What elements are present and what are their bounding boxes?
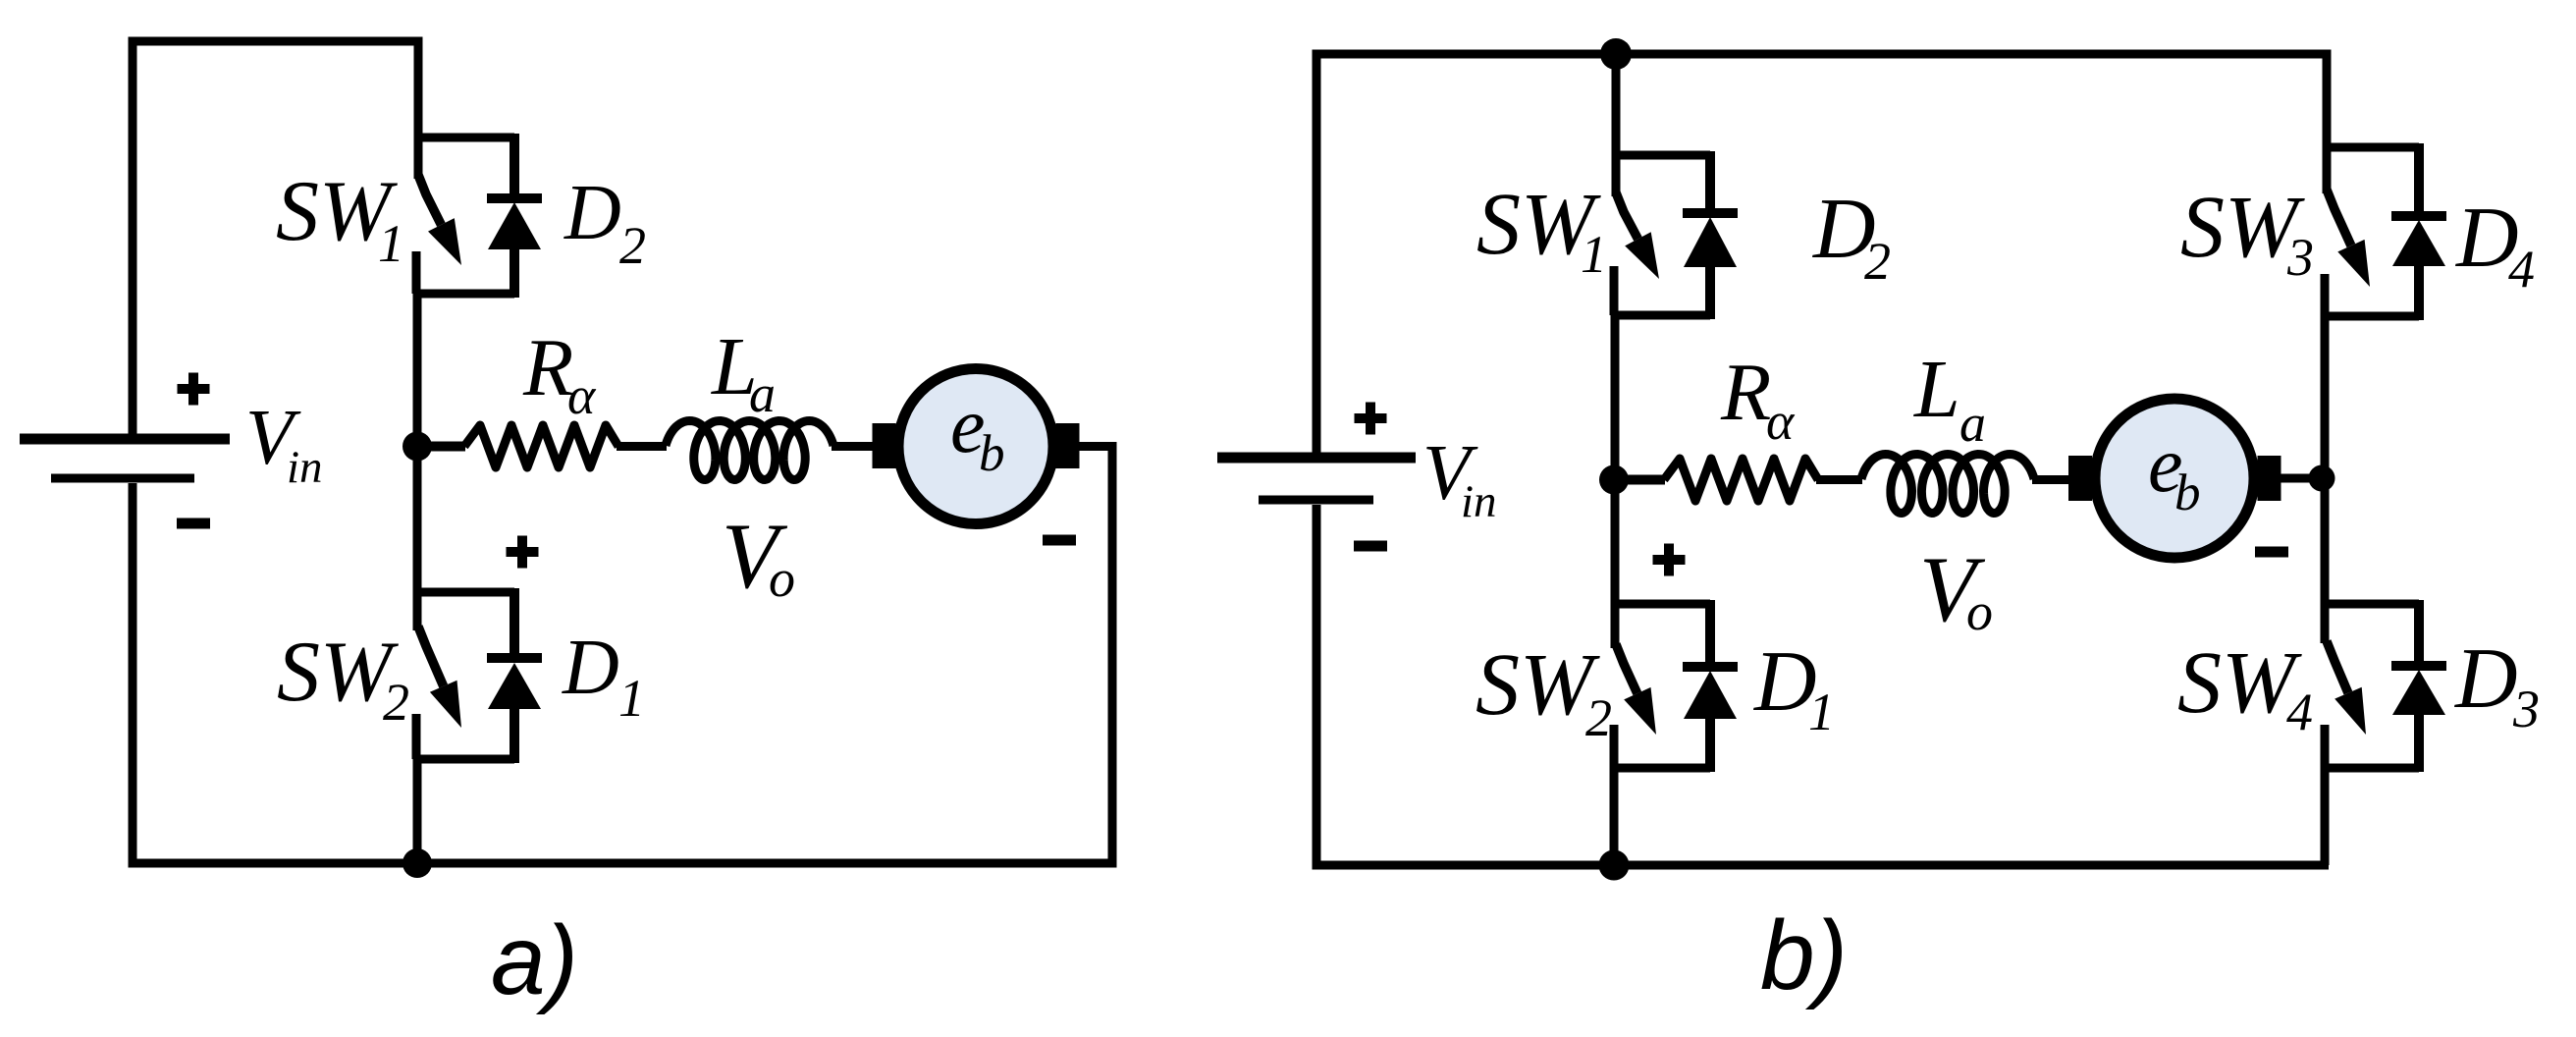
svg-text:D: D (562, 625, 619, 711)
switch SW1 arrowhead (428, 218, 461, 265)
inductor La (a) (666, 421, 833, 480)
wire: left phase leg between SW1 and SW2 (b) (1611, 311, 1620, 648)
svg-text:1: 1 (1808, 682, 1835, 741)
motor M body eb (a) (898, 369, 1053, 524)
wire: top bar of SW1/D2 (a) parallel pair (414, 134, 514, 142)
svg-text:1: 1 (1581, 225, 1607, 284)
switch SW3 arrowhead (2337, 240, 2370, 287)
wire: left rail + top rail + SW1 upper lead (a) (133, 41, 418, 434)
svg-text:L: L (1913, 344, 1960, 435)
wire: bottom bar of SW3/D4 (b) parallel pair (2324, 312, 2419, 321)
motor M terminal right (b) (2258, 456, 2281, 501)
wire: bottom bar of SW1/D2 (a) parallel pair (415, 290, 514, 299)
svg-text:b): b) (1760, 901, 1848, 1010)
wire: SW2 lower lead to bottom rail (b) (1610, 764, 1619, 865)
wire: SW2 lower lead to bottom rail (a) (413, 755, 422, 863)
svg-text:SW: SW (1476, 636, 1600, 734)
diode D1 cathode lead (510, 588, 519, 658)
wire: SW1 upper lead (b) (1612, 54, 1621, 196)
switch SW2 arrowhead (1624, 687, 1656, 735)
wire: bottom bar of SW4/D3 (b) parallel pair (2324, 764, 2419, 773)
battery Vin (b) negative plate (1259, 496, 1373, 505)
node: left output node junction dot (b) (1599, 465, 1629, 495)
svg-text:SW: SW (2180, 179, 2305, 276)
switch SW1 arrowhead (1625, 232, 1659, 279)
switch SW2 arrowhead (430, 681, 461, 728)
resistor Ra (b) (1664, 459, 1818, 501)
switch SW2 blade (418, 627, 444, 686)
node: bottom rail junction dot (a) (402, 848, 432, 878)
wire: bottom bar of SW1/D2 (b) parallel pair (1613, 311, 1710, 320)
diode D2 cathode lead (510, 134, 519, 198)
diode D4 cathode bar (2391, 211, 2446, 221)
switch SW1 blade (418, 175, 441, 225)
wire: motor to right phase leg (b) (2281, 474, 2326, 483)
wire: left rail lower + bottom rail + right rail to motor (a) (133, 447, 1112, 864)
switch SW1 blade (1616, 192, 1638, 239)
node: top rail junction dot (b) (1600, 38, 1632, 70)
wire: phase leg between SW1 and SW2 (a) (413, 290, 422, 630)
label + of Vo (b) (1653, 544, 1686, 576)
svg-text:a: a (1959, 394, 1986, 453)
svg-text:D: D (1753, 634, 1817, 730)
svg-text:SW: SW (277, 625, 399, 720)
svg-text:o: o (769, 549, 795, 608)
diode D1 cathode lead (1705, 600, 1715, 667)
label + of battery (b) (1355, 403, 1387, 435)
resistor Ra (a) (464, 425, 618, 467)
diode D1 anode lead (510, 707, 519, 763)
svg-text:a: a (749, 364, 776, 423)
wire: bottom bar of SW2/D1 (a) parallel pair (415, 755, 514, 764)
svg-text:a): a) (491, 905, 578, 1015)
switch SW3 lower contact (2321, 274, 2330, 316)
diode D4 triangle (2392, 220, 2445, 266)
node: output node junction dot (a) (402, 432, 432, 462)
switch SW2 lower contact (1610, 725, 1619, 768)
svg-text:2: 2 (619, 216, 646, 275)
svg-text:2: 2 (1864, 232, 1891, 291)
svg-text:α: α (1766, 392, 1796, 451)
label - of battery (a) (177, 518, 210, 529)
diode D3 triangle (2392, 670, 2445, 715)
motor M terminal right (a) (1056, 423, 1080, 468)
diode D1 cathode bar (1683, 662, 1738, 672)
svg-text:o: o (1966, 582, 1993, 641)
label + of Vo (a) (507, 536, 539, 569)
label - of battery (b) (1354, 541, 1387, 552)
svg-text:D: D (563, 170, 621, 256)
wire: resistor to inductor (b) (1816, 475, 1862, 484)
switch SW4 blade (2327, 641, 2348, 693)
diode D1 cathode bar (487, 653, 542, 663)
diode D3 cathode lead (2414, 600, 2424, 666)
svg-text:4: 4 (2286, 682, 2313, 741)
wire: left rail + top rail + SW3 upper lead (b) (1316, 54, 2327, 453)
svg-text:R: R (522, 322, 573, 413)
switch SW4 lower contact (2321, 725, 2330, 768)
battery Vin (a) positive plate (20, 434, 230, 445)
battery Vin (a) negative plate (51, 474, 194, 483)
wire: node to resistor (b) (1614, 475, 1665, 485)
switch SW1 lower contact (412, 251, 421, 294)
diode D1 triangle (1684, 671, 1737, 719)
diode D2 anode lead (1705, 265, 1715, 319)
diode D4 cathode lead (2414, 143, 2424, 216)
diode D3 anode lead (2414, 713, 2424, 772)
svg-text:4: 4 (2508, 240, 2535, 299)
battery Vin (b) positive plate (1217, 453, 1416, 464)
node: bottom rail junction dot (b) (1599, 850, 1630, 881)
diode D3 cathode bar (2391, 661, 2446, 671)
switch SW3 blade (2327, 190, 2351, 246)
wire: top bar of SW2/D1 (a) parallel pair (414, 588, 514, 597)
wire: node to resistor (a) (417, 442, 465, 452)
diode D2 cathode lead (1705, 151, 1715, 213)
switch SW2 lower contact (412, 714, 421, 759)
diode D1 triangle (488, 663, 541, 709)
label - at motor terminal (a) (1043, 535, 1076, 546)
wire: top bar of SW1/D2 (b) parallel pair (1612, 151, 1710, 160)
diode D1 anode lead (1705, 717, 1715, 772)
diode D2 anode lead (510, 247, 519, 298)
motor M body eb (b) (2095, 399, 2254, 558)
label - at motor terminal (b) (2255, 547, 2288, 558)
label + of battery (a) (178, 373, 210, 406)
diode D2 triangle (488, 202, 541, 249)
wire: right phase leg between SW3 and SW4 (b) (2321, 312, 2330, 643)
svg-text:1: 1 (618, 669, 645, 728)
switch SW1 lower contact (1610, 266, 1619, 315)
wire: top bar of SW3/D4 (b) parallel pair (2323, 143, 2419, 152)
svg-text:in: in (1461, 476, 1497, 527)
svg-text:R: R (1720, 347, 1771, 438)
svg-text:1: 1 (378, 214, 404, 273)
wire: resistor to inductor (a) (617, 442, 667, 451)
switch SW4 arrowhead (2334, 687, 2366, 735)
switch SW2 blade (1616, 644, 1637, 693)
svg-text:SW: SW (2177, 634, 2302, 732)
svg-text:b: b (2174, 464, 2201, 521)
wire: left rail lower + bottom rail (b) (1316, 505, 2329, 865)
wire: inductor to motor (b) (2032, 475, 2069, 484)
svg-text:D: D (2454, 631, 2518, 727)
diode D2 cathode bar (487, 193, 542, 203)
svg-text:2: 2 (383, 673, 409, 732)
svg-text:in: in (287, 442, 323, 493)
inductor La (b) (1861, 455, 2034, 514)
svg-text:α: α (567, 366, 597, 425)
wire: SW4 lower lead to bottom rail (b) (2321, 764, 2330, 865)
motor M terminal left (a) (873, 423, 896, 468)
node: right output node junction dot (b) (2309, 465, 2335, 492)
wire: top bar of SW4/D3 (b) parallel pair (2323, 600, 2419, 609)
svg-text:3: 3 (2512, 680, 2540, 738)
wire: bottom bar of SW2/D1 (b) parallel pair (1613, 764, 1710, 773)
diode D2 cathode bar (1683, 208, 1738, 218)
svg-text:2: 2 (1585, 688, 1612, 747)
motor M terminal left (b) (2068, 456, 2092, 501)
diode D2 triangle (1684, 217, 1737, 267)
svg-text:3: 3 (2286, 228, 2314, 287)
svg-text:b: b (979, 425, 1005, 482)
wire: inductor to motor (a) (832, 442, 873, 451)
wire: top bar of SW2/D1 (b) parallel pair (1612, 600, 1710, 609)
diode D4 anode lead (2414, 264, 2424, 320)
